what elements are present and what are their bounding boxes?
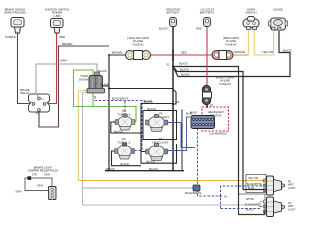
svg-text:BLACK: BLACK (101, 83, 110, 87)
svg-text:FUSE #3: FUSE #3 (219, 82, 231, 86)
svg-text:GRAY: GRAY (16, 191, 23, 194)
svg-text:GRAY: GRAY (37, 185, 44, 188)
svg-text:YELLOW: YELLOW (262, 50, 274, 54)
svg-text:RED: RED (60, 35, 66, 39)
svg-text:BLACK: BLACK (106, 167, 115, 171)
svg-text:PURPLE: PURPLE (5, 35, 16, 39)
svg-text:ORANGE: ORANGE (234, 50, 246, 54)
svg-text:BLUE/WHITE: BLUE/WHITE (247, 183, 262, 186)
svg-text:BLACK: BLACK (179, 62, 188, 66)
svg-text:(BATTERY): (BATTERY) (200, 11, 215, 15)
svg-text:BLUE: BLUE (186, 114, 192, 116)
svg-text:BLACK: BLACK (121, 162, 130, 166)
svg-text:GRAY: GRAY (44, 174, 51, 177)
svg-text:LIGHT: LIGHT (288, 208, 296, 211)
svg-text:BLACK: BLACK (181, 73, 190, 77)
svg-text:BROWN: BROWN (62, 42, 72, 46)
svg-text:RED: RED (181, 51, 187, 55)
svg-text:BLACK: BLACK (159, 27, 168, 31)
svg-text:YELLOW: YELLOW (248, 177, 259, 180)
svg-text:CHOKE: CHOKE (273, 8, 283, 12)
svg-text:BLUE: BLUE (248, 187, 255, 190)
svg-text:SWITCH: SWITCH (245, 11, 256, 15)
svg-text:FUSE #2: FUSE #2 (225, 42, 237, 46)
svg-text:BLACK: BLACK (180, 68, 189, 72)
svg-text:BLUE/WHITE: BLUE/WHITE (112, 97, 129, 101)
svg-text:WHITE: WHITE (246, 198, 254, 201)
svg-text:LIGHT: LIGHT (288, 187, 296, 190)
svg-text:BLACK: BLACK (148, 107, 157, 111)
svg-text:BLACK: BLACK (246, 209, 254, 212)
svg-text:BLACK: BLACK (149, 167, 158, 171)
svg-text:BATTERY: BATTERY (167, 11, 180, 15)
svg-text:BLACK: BLACK (283, 48, 292, 52)
svg-text:JUMPER RECEPTACLE: JUMPER RECEPTACLE (28, 169, 59, 173)
svg-text:RELAY: RELAY (21, 91, 30, 95)
svg-text:BLUE/WHITE: BLUE/WHITE (185, 191, 202, 195)
svg-text:BLUE/WHITE: BLUE/WHITE (245, 203, 260, 206)
svg-text:BROWN: BROWN (112, 51, 122, 55)
svg-text:GRAY: GRAY (60, 59, 68, 63)
svg-text:FUSE #1: FUSE #1 (132, 42, 144, 46)
svg-text:BLACK: BLACK (98, 69, 107, 73)
svg-text:(PWR GROUND): (PWR GROUND) (4, 11, 26, 15)
svg-text:STR: STR (32, 175, 37, 177)
svg-text:RED: RED (196, 27, 202, 31)
svg-text:BLACK: BLACK (144, 100, 153, 104)
svg-text:(+BR): (+BR) (53, 14, 60, 18)
svg-text:SIGNAL: SIGNAL (79, 78, 90, 82)
svg-text:(ILLUMINATED): (ILLUMINATED) (209, 133, 226, 136)
